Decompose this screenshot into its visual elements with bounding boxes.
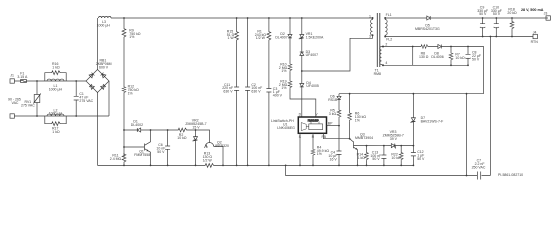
svg-text:10 kΩ: 10 kΩ bbox=[455, 56, 465, 60]
svg-text:1%: 1% bbox=[355, 118, 360, 122]
capacitor C10 bbox=[494, 18, 499, 37]
diode D6 + resistor R5 chain bbox=[337, 94, 341, 126]
svg-text:D: D bbox=[299, 113, 302, 117]
svg-text:BAV21WS-7-F: BAV21WS-7-F bbox=[421, 120, 444, 124]
junction bbox=[413, 93, 415, 95]
svg-text:50 V: 50 V bbox=[493, 12, 501, 16]
wire bias vertical stub bbox=[412, 47, 414, 66]
transistor Q3 bbox=[350, 139, 358, 166]
inductor L3 bbox=[99, 16, 112, 18]
svg-text:VAC: VAC bbox=[12, 101, 19, 105]
svg-text:RS1B: RS1B bbox=[328, 98, 338, 102]
pin FB wire bbox=[324, 133, 350, 138]
svg-text:RM8: RM8 bbox=[374, 72, 381, 76]
V-pin chain: D2 + R10 + R19 bbox=[288, 18, 316, 117]
node dot bbox=[195, 129, 197, 131]
pin S wire bbox=[299, 133, 301, 165]
wire AC neutral bottom bbox=[14, 115, 109, 117]
svg-text:DL4002: DL4002 bbox=[131, 123, 143, 127]
svg-text:20 kΩ: 20 kΩ bbox=[507, 11, 517, 15]
wire Y-cap to secondary bbox=[489, 37, 491, 176]
diode D1 bbox=[137, 128, 140, 132]
svg-text:50 V: 50 V bbox=[479, 12, 487, 16]
junction bbox=[299, 165, 301, 167]
connector J3 bbox=[546, 16, 550, 20]
node dot bbox=[36, 115, 38, 117]
svg-text:28 V, 500 mA: 28 V, 500 mA bbox=[521, 8, 544, 12]
transistor Q1 bbox=[124, 130, 151, 165]
svg-text:DL4007: DL4007 bbox=[275, 36, 287, 40]
junction bbox=[490, 36, 492, 38]
svg-text:50 V: 50 V bbox=[472, 57, 480, 61]
capacitor C6 bbox=[165, 130, 170, 165]
transformer core bbox=[377, 13, 380, 67]
junction bbox=[357, 165, 359, 167]
zener VR3 inline bbox=[391, 144, 395, 149]
capacitor C12 bbox=[411, 146, 416, 166]
transformer secondary winding bbox=[385, 18, 387, 37]
svg-text:LNK406EG: LNK406EG bbox=[277, 126, 295, 130]
svg-text:1000 μH: 1000 μH bbox=[49, 112, 63, 116]
svg-text:FB/SD/BP: FB/SD/BP bbox=[308, 119, 319, 122]
svg-text:600 V: 600 V bbox=[99, 65, 109, 69]
svg-text:S: S bbox=[299, 135, 302, 139]
svg-text:275 VAC: 275 VAC bbox=[21, 104, 35, 108]
svg-text:1/2 W: 1/2 W bbox=[203, 158, 213, 162]
junction bbox=[400, 145, 402, 147]
svg-text:1 kΩ: 1 kΩ bbox=[52, 66, 60, 70]
junction bbox=[372, 34, 374, 36]
svg-text:400 V: 400 V bbox=[273, 94, 283, 98]
MOSFET Q2 bbox=[204, 139, 223, 166]
diode D8 bbox=[438, 45, 441, 49]
node dot bbox=[167, 129, 169, 131]
junction bbox=[247, 165, 249, 167]
varistor RV1 bbox=[33, 81, 40, 116]
svg-text:15 V: 15 V bbox=[192, 125, 200, 129]
wire AC line top bbox=[14, 80, 86, 82]
junction bbox=[450, 64, 452, 66]
capacitor C1 bbox=[74, 81, 79, 116]
node dot bbox=[75, 80, 77, 82]
transformer T1 primary winding bbox=[371, 18, 373, 35]
junction bbox=[383, 145, 385, 147]
svg-text:DL4006: DL4006 bbox=[431, 55, 443, 59]
svg-text:FB: FB bbox=[322, 135, 327, 139]
svg-text:1 kΩ: 1 kΩ bbox=[52, 130, 60, 134]
svg-text:1%: 1% bbox=[129, 35, 134, 39]
wire lower return rail bbox=[286, 165, 491, 175]
junction bbox=[467, 46, 469, 48]
svg-text:10 kΩ: 10 kΩ bbox=[177, 136, 187, 140]
svg-text:FL2: FL2 bbox=[386, 37, 392, 41]
junction bbox=[195, 165, 197, 167]
transformer bias winding bbox=[380, 47, 383, 66]
junction bbox=[289, 17, 291, 19]
junction bbox=[511, 17, 513, 19]
node dot bbox=[36, 80, 38, 82]
resistor R11 bbox=[122, 153, 126, 163]
junction bbox=[349, 93, 351, 95]
resistor R8 bbox=[420, 45, 429, 49]
node dot bbox=[75, 115, 77, 117]
svg-text:R: R bbox=[312, 135, 315, 139]
svg-text:275 VAC: 275 VAC bbox=[79, 99, 93, 103]
damper R15 + C11 branch bbox=[234, 18, 239, 165]
svg-text:BP: BP bbox=[328, 122, 333, 126]
diode D7 bbox=[410, 94, 415, 146]
resistor R22 bbox=[399, 146, 403, 166]
connector J4 bbox=[533, 34, 537, 38]
svg-text:630 V: 630 V bbox=[223, 90, 233, 94]
svg-text:J3: J3 bbox=[544, 12, 548, 16]
svg-text:UF4005: UF4005 bbox=[306, 84, 319, 88]
svg-text:1000 μH: 1000 μH bbox=[49, 87, 63, 91]
capacitor C4 on BP chain bbox=[337, 126, 342, 166]
svg-text:39 V: 39 V bbox=[390, 137, 398, 141]
junction bbox=[466, 175, 468, 177]
wire secondary top rail bbox=[385, 17, 548, 19]
junction bbox=[400, 165, 402, 167]
junction bbox=[301, 17, 303, 19]
junction bbox=[382, 64, 384, 66]
junction bbox=[495, 17, 497, 19]
svg-text:3: 3 bbox=[369, 34, 371, 38]
wire damper line bbox=[124, 130, 210, 139]
junction bbox=[413, 145, 415, 147]
capacitor C8 bbox=[465, 47, 470, 66]
resistor R7 bbox=[449, 47, 453, 66]
wire feedback rail bbox=[339, 93, 484, 95]
resistor R13 inline bbox=[98, 164, 414, 168]
junction bbox=[222, 165, 224, 167]
svg-text:FMMT558: FMMT558 bbox=[134, 153, 150, 157]
bridge rectifier RB1 bbox=[86, 70, 109, 93]
node dot bbox=[123, 129, 125, 131]
svg-text:1%: 1% bbox=[128, 91, 133, 95]
connector J1 bbox=[10, 79, 14, 118]
wire bias bottom bbox=[383, 64, 468, 66]
pin BP wire bbox=[327, 125, 340, 127]
svg-text:1/2 W: 1/2 W bbox=[256, 36, 266, 40]
wire fb to primary return bbox=[466, 94, 468, 176]
junction bbox=[450, 46, 452, 48]
junction bbox=[466, 93, 468, 95]
capacitor C7 bbox=[478, 172, 481, 180]
junction bbox=[467, 64, 469, 66]
junction bbox=[268, 165, 270, 167]
svg-text:1%: 1% bbox=[317, 152, 322, 156]
resistor R16 parallel branch bbox=[45, 71, 66, 81]
node dot bbox=[123, 17, 125, 19]
junction bbox=[236, 17, 238, 19]
node dots bottom rail left bbox=[150, 165, 152, 167]
junction bbox=[312, 165, 314, 167]
resistor R9 bbox=[122, 28, 126, 39]
pin R wire + resistor R4 bbox=[311, 133, 315, 165]
junction bbox=[511, 36, 513, 38]
op-amp U1 LinkSwitch-PH bbox=[298, 117, 326, 133]
svg-text:1 kΩ: 1 kΩ bbox=[358, 156, 366, 160]
svg-text:3.15 A: 3.15 A bbox=[17, 75, 28, 79]
junction bbox=[382, 46, 384, 48]
capacitor C2 branch bbox=[245, 18, 250, 165]
junction bbox=[236, 165, 238, 167]
svg-text:50 V: 50 V bbox=[372, 157, 380, 161]
wire AC2 to bridge right bbox=[108, 81, 110, 116]
junction bbox=[285, 165, 287, 167]
diode D5 bbox=[427, 16, 430, 20]
resistor R6 chain bbox=[348, 94, 352, 139]
resistor R18 bbox=[510, 18, 514, 37]
svg-text:3 kΩ: 3 kΩ bbox=[329, 112, 337, 116]
junction bbox=[383, 165, 385, 167]
svg-text:UF4007: UF4007 bbox=[306, 53, 319, 57]
svg-text:FL1: FL1 bbox=[386, 13, 392, 17]
D-pin chain: VR1 + D3 + D4 bbox=[299, 18, 304, 117]
wire secondary bottom rail bbox=[385, 36, 533, 38]
svg-text:2.4 MΩ: 2.4 MΩ bbox=[110, 157, 122, 161]
wire sense chain bbox=[123, 18, 125, 165]
junction bbox=[384, 17, 386, 19]
inductor L2 bbox=[47, 114, 64, 116]
junction bbox=[413, 165, 415, 167]
wire top primary rail bbox=[111, 17, 373, 19]
junction bbox=[268, 17, 270, 19]
svg-text:2: 2 bbox=[385, 42, 387, 46]
wire drain from transformer bbox=[302, 35, 373, 71]
svg-text:630 V: 630 V bbox=[251, 90, 261, 94]
svg-text:J4: J4 bbox=[533, 30, 537, 34]
junction bbox=[338, 125, 340, 127]
winding pin dots bbox=[372, 17, 374, 19]
inductor L1 bbox=[47, 79, 64, 81]
svg-text:MBRS4201T3G: MBRS4201T3G bbox=[415, 27, 440, 31]
junction bbox=[167, 165, 169, 167]
node dot bbox=[150, 129, 152, 131]
svg-text:PI-5861-082710: PI-5861-082710 bbox=[498, 173, 523, 177]
R1 + C3 branch bbox=[266, 18, 271, 165]
svg-text:250 VAC: 250 VAC bbox=[472, 165, 486, 169]
resistor R17 parallel branch bbox=[45, 116, 66, 126]
junction bbox=[349, 138, 351, 140]
svg-text:1000 μH: 1000 μH bbox=[97, 24, 111, 28]
svg-text:V: V bbox=[315, 113, 318, 117]
svg-text:1.5KE200A: 1.5KE200A bbox=[306, 36, 324, 40]
wire base rail bbox=[354, 144, 414, 146]
svg-text:1 W: 1 W bbox=[228, 36, 235, 40]
svg-text:MMBT3904: MMBT3904 bbox=[355, 136, 373, 140]
svg-text:50 V: 50 V bbox=[157, 150, 165, 154]
svg-text:1%: 1% bbox=[281, 86, 286, 90]
junction bbox=[384, 36, 386, 38]
junction bbox=[366, 165, 368, 167]
junction bbox=[338, 165, 340, 167]
resistor R12 bbox=[122, 86, 126, 93]
resistor R14 bbox=[365, 146, 369, 166]
svg-text:130 Ω: 130 Ω bbox=[419, 55, 429, 59]
junction bbox=[366, 145, 368, 147]
svg-text:10 kΩ: 10 kΩ bbox=[391, 156, 401, 160]
svg-text:4: 4 bbox=[385, 61, 387, 65]
zener VR2 bbox=[193, 130, 198, 165]
svg-text:J1: J1 bbox=[10, 74, 14, 78]
junction bbox=[495, 36, 497, 38]
junction bbox=[247, 17, 249, 19]
svg-text:IRFR320: IRFR320 bbox=[215, 144, 229, 148]
junction bbox=[123, 165, 125, 167]
junction bbox=[482, 17, 484, 19]
wire bias top with R8 D8 bbox=[383, 47, 484, 94]
node dot bbox=[123, 146, 125, 148]
capacitor C9 bbox=[480, 18, 485, 37]
junction bbox=[482, 36, 484, 38]
resistor R2 bbox=[177, 128, 188, 132]
svg-text:50 V: 50 V bbox=[417, 157, 425, 161]
wire bridge + up bbox=[97, 18, 99, 70]
svg-text:RTN: RTN bbox=[531, 40, 539, 44]
svg-text:16 V: 16 V bbox=[330, 157, 338, 161]
capacitor C13 bbox=[381, 146, 386, 166]
svg-text:1: 1 bbox=[369, 14, 371, 18]
wire bridge - down bbox=[97, 93, 99, 166]
node drain junction bbox=[301, 70, 303, 72]
fuse F1 bbox=[21, 80, 27, 83]
svg-text:1%: 1% bbox=[281, 69, 286, 73]
junction bbox=[412, 46, 414, 48]
